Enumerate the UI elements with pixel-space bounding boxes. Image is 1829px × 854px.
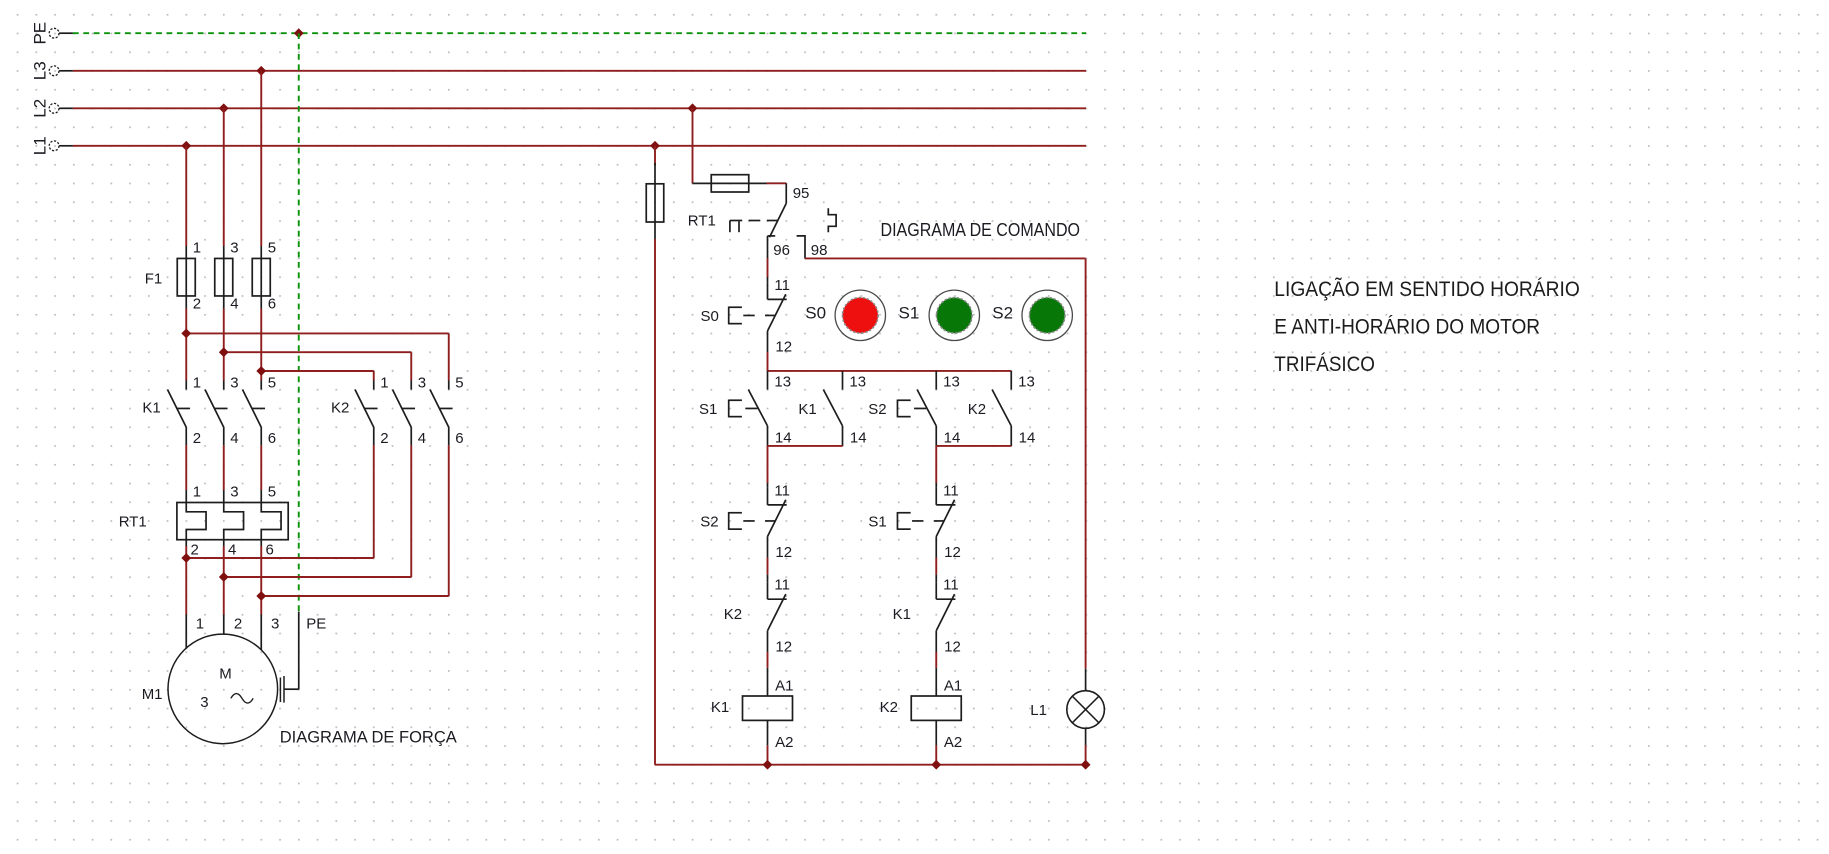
lead K2.A1 [935, 668, 937, 696]
svg-text:3: 3 [230, 483, 238, 500]
svg-text:12: 12 [944, 638, 961, 655]
wire RT1.6 to motor W [260, 546, 262, 615]
wire fuse1 to K1.1 [185, 309, 187, 381]
stub L1 [59, 145, 73, 147]
lead K1.A2 [767, 720, 769, 745]
wire fuse2 to K1.3 [223, 309, 225, 381]
stub L3 [59, 70, 73, 72]
svg-text:12: 12 [775, 339, 792, 356]
junction L1/control rail [650, 141, 660, 151]
svg-text:6: 6 [455, 430, 463, 447]
wire PE vertical [298, 33, 300, 611]
wire crossover L1 to K2.5 [186, 332, 449, 334]
svg-text:6: 6 [265, 542, 273, 559]
svg-text:95: 95 [793, 185, 810, 202]
NO contact S1 13-14 [767, 371, 769, 390]
NC contact K1 11-12 [935, 582, 937, 599]
svg-text:L1: L1 [1030, 702, 1047, 719]
svg-text:3: 3 [200, 694, 208, 711]
svg-text:6: 6 [268, 430, 276, 447]
junction crossover 1 [181, 329, 191, 339]
lead S2.11 [767, 483, 769, 488]
svg-text:TRIFÁSICO: TRIFÁSICO [1274, 353, 1375, 376]
svg-text:96: 96 [773, 242, 790, 259]
wire drop K2.1 [373, 371, 375, 381]
wire RT1.2 lead [185, 540, 187, 546]
lead K2.A2 [935, 720, 937, 745]
svg-text:1: 1 [193, 239, 201, 256]
junction L1/rail [1081, 760, 1091, 770]
svg-text:S1: S1 [899, 303, 920, 322]
svg-text:12: 12 [944, 544, 961, 561]
wire K2 to bottom rail [935, 745, 937, 764]
svg-text:1: 1 [380, 374, 388, 391]
wire K2 to coil K1 [767, 652, 769, 668]
pushbutton actuator S2 [728, 512, 730, 530]
svg-text:L3: L3 [30, 61, 49, 80]
svg-text:13: 13 [774, 374, 791, 391]
svg-text:A2: A2 [775, 734, 793, 751]
NO contact K1 13-14 [842, 371, 844, 390]
svg-text:K1: K1 [711, 699, 729, 716]
svg-text:1: 1 [193, 374, 201, 391]
svg-text:RT1: RT1 [688, 213, 716, 230]
svg-text:3: 3 [271, 616, 279, 633]
wire drop K2.3 [410, 352, 412, 380]
svg-text:98: 98 [811, 242, 828, 259]
NO contact K2 13-14 [1010, 371, 1012, 390]
lead S1.11 [935, 483, 937, 488]
svg-text:6: 6 [268, 296, 276, 313]
svg-text:M: M [219, 666, 232, 683]
stub PE [59, 32, 73, 34]
lead lamp L1 top [1085, 669, 1087, 691]
wire L1 drop to fuse [185, 146, 187, 246]
svg-text:11: 11 [943, 577, 959, 594]
junction RT1.6 [256, 591, 266, 601]
svg-text:4: 4 [228, 542, 236, 559]
lead K2.11 [767, 575, 769, 583]
rail PE [73, 32, 1086, 34]
wire K1 out [185, 445, 187, 490]
NC contact K2 11-12 [767, 582, 769, 599]
svg-text:3: 3 [230, 374, 238, 391]
wire RT1.2 to motor U [185, 546, 187, 615]
control fuse (vertical) [654, 163, 656, 239]
junction crossover 3 [256, 366, 266, 376]
svg-text:A1: A1 [944, 677, 962, 694]
svg-text:2: 2 [193, 296, 201, 313]
wire K2.6 drop [448, 445, 450, 596]
contactor pole K2.1 [373, 381, 375, 390]
wire bottom control rail [655, 764, 1086, 766]
wire lead RT1 [223, 490, 225, 503]
junction RT1.4 [219, 572, 229, 582]
wire K1 to bottom rail [767, 745, 769, 764]
wire L3 drop to fuse [260, 71, 262, 246]
svg-text:K2: K2 [968, 401, 986, 418]
rail L3 [73, 70, 1086, 72]
wire lead RT1 [185, 490, 187, 503]
svg-text:1: 1 [196, 616, 204, 633]
svg-text:5: 5 [268, 239, 276, 256]
motor frame ground bars [279, 678, 281, 703]
contactor pole K2.3 [410, 381, 412, 390]
NC contact S1 11-12 [935, 488, 937, 505]
svg-text:1: 1 [193, 483, 201, 500]
control fuse F2 (horizontal) [693, 182, 767, 184]
terminal circle PE [49, 28, 59, 38]
wire drop K2.5 [448, 333, 450, 380]
wire PE to motor [298, 612, 300, 690]
rail L1 [73, 145, 1086, 147]
wire K1 to coil K2 [935, 652, 937, 668]
svg-text:13: 13 [849, 374, 866, 391]
NO contact S2 13-14 [935, 371, 937, 390]
svg-text:E ANTI-HORÁRIO DO MOTOR: E ANTI-HORÁRIO DO MOTOR [1274, 315, 1540, 338]
svg-text:K1: K1 [142, 399, 160, 416]
thermal overload relay RT1 box [177, 503, 288, 540]
motor M1 leads [185, 615, 187, 649]
terminal circle L1 [49, 141, 59, 151]
lead K1.A1 [767, 668, 769, 696]
wire S2 to K2 [767, 558, 769, 575]
lead S0.11 [767, 277, 769, 282]
svg-text:S2: S2 [868, 401, 886, 418]
RT1 heater element [186, 503, 206, 540]
svg-text:2: 2 [380, 430, 388, 447]
svg-text:5: 5 [268, 374, 276, 391]
pushbutton actuator S1 [728, 400, 730, 418]
pushbutton actuator S0 [728, 307, 730, 325]
wire K2.2 drop [373, 445, 375, 558]
coil K2 [911, 696, 961, 720]
junction L2/fuse2 [219, 103, 229, 113]
svg-text:K2: K2 [724, 606, 742, 623]
svg-text:11: 11 [774, 577, 790, 594]
svg-text:PE: PE [30, 22, 49, 45]
svg-text:K2: K2 [880, 699, 898, 716]
wire crossover L3 to K2.1 [261, 370, 374, 372]
wire K1 out [223, 445, 225, 490]
pushbutton actuator S1 [896, 512, 898, 530]
svg-text:12: 12 [775, 544, 792, 561]
svg-text:2: 2 [190, 542, 198, 559]
svg-text:PE: PE [306, 616, 326, 633]
contactor pole K1.5 [260, 381, 262, 390]
svg-text:LIGAÇÃO EM SENTIDO HORÁRIO: LIGAÇÃO EM SENTIDO HORÁRIO [1274, 277, 1580, 301]
svg-text:14: 14 [775, 430, 792, 447]
RT1 heater element [261, 503, 281, 540]
svg-text:RT1: RT1 [119, 514, 147, 531]
wire RT1.2 to K2.2 [186, 557, 374, 559]
wire 96 to S0 [767, 258, 769, 277]
svg-text:A1: A1 [775, 677, 793, 694]
svg-text:13: 13 [1018, 374, 1035, 391]
RT1 heater element [224, 503, 244, 540]
wire S2/K2 join [936, 445, 1011, 447]
svg-text:5: 5 [268, 483, 276, 500]
fuse F1 pole 3 [260, 246, 262, 309]
junction L2/control fuse [688, 103, 698, 113]
svg-text:4: 4 [418, 430, 426, 447]
svg-text:2: 2 [193, 430, 201, 447]
wire K2.4 drop [410, 445, 412, 577]
wire contact bus [768, 370, 1012, 372]
svg-text:S1: S1 [868, 513, 886, 530]
lead lamp L1 bottom [1085, 728, 1087, 745]
lead K1.11 [935, 575, 937, 583]
stub L2 [59, 107, 73, 109]
wire fuse3 to K1.5 [260, 309, 262, 381]
pilot light S0 red [835, 290, 885, 340]
wire L2 drop to fuse [692, 108, 694, 183]
svg-text:L1: L1 [30, 136, 49, 155]
wire RT1.6 to K2.6 [261, 595, 449, 597]
svg-text:S2: S2 [992, 303, 1013, 322]
wire to S2 [767, 446, 769, 483]
wire right rail [1085, 258, 1087, 668]
svg-text:12: 12 [775, 638, 792, 655]
NC contact S2 11-12 [767, 488, 769, 505]
junction PE/vertical [294, 28, 304, 38]
svg-text:13: 13 [943, 374, 960, 391]
svg-text:4: 4 [230, 430, 238, 447]
svg-text:DIAGRAMA DE FORÇA: DIAGRAMA DE FORÇA [280, 727, 458, 746]
RT1 contact 95-96-98 [785, 183, 787, 203]
svg-text:14: 14 [850, 430, 867, 447]
wire crossover L2 to K2.3 [224, 351, 412, 353]
svg-text:A2: A2 [944, 734, 962, 751]
contactor pole K2.5 [448, 381, 450, 390]
svg-text:11: 11 [943, 482, 959, 499]
svg-text:K2: K2 [331, 399, 349, 416]
junction K2/rail [931, 760, 941, 770]
svg-text:3: 3 [418, 374, 426, 391]
svg-text:3: 3 [230, 239, 238, 256]
svg-text:4: 4 [230, 296, 238, 313]
wire RT1.4 to motor V [223, 546, 225, 615]
RT1 trip symbol [729, 221, 731, 233]
svg-text:S2: S2 [700, 513, 718, 530]
svg-text:S1: S1 [699, 401, 717, 418]
svg-text:14: 14 [1019, 430, 1036, 447]
wire lead RT1 [260, 490, 262, 503]
pushbutton actuator S2 [896, 400, 898, 418]
junction crossover 2 [219, 347, 229, 357]
contactor pole K1.1 [185, 381, 187, 390]
svg-text:S0: S0 [701, 308, 719, 325]
pilot light S2 green [1022, 290, 1072, 340]
wire L1 to bottom rail [1085, 745, 1087, 764]
junction L3/fuse3 [256, 66, 266, 76]
wire left control rail [654, 239, 656, 765]
coil K1 [743, 696, 793, 720]
junction K1/rail [763, 760, 773, 770]
wire to S1 [935, 446, 937, 483]
svg-text:K1: K1 [798, 401, 816, 418]
junction L1/fuse1 [181, 141, 191, 151]
lamp L1 [1067, 691, 1105, 729]
wire RT1.4 to K2.4 [224, 576, 412, 578]
svg-text:2: 2 [234, 616, 242, 633]
wire 98 to right rail [805, 257, 1086, 259]
wire fuse to RT1.95 [767, 182, 787, 184]
svg-text:K1: K1 [893, 606, 911, 623]
svg-text:F1: F1 [145, 270, 163, 287]
NC contact S0 11-12 [767, 282, 769, 299]
svg-text:L2: L2 [30, 99, 49, 118]
terminal circle L3 [49, 66, 59, 76]
svg-text:DIAGRAMA DE COMANDO: DIAGRAMA DE COMANDO [881, 220, 1081, 240]
svg-text:5: 5 [455, 374, 463, 391]
rail L2 [73, 107, 1086, 109]
wire S0 to bus [767, 352, 769, 371]
wire RT1.4 lead [223, 540, 225, 546]
svg-text:M1: M1 [142, 686, 163, 703]
motor M1 [168, 634, 278, 744]
pilot light S1 green [929, 290, 979, 340]
svg-text:11: 11 [774, 482, 790, 499]
wire S1 to K1 [935, 558, 937, 575]
junction RT1.2 [181, 553, 191, 563]
terminal circle L2 [49, 103, 59, 113]
svg-text:14: 14 [944, 430, 961, 447]
contactor pole K1.3 [223, 381, 225, 390]
wire L2 drop to fuse [223, 108, 225, 246]
svg-text:S0: S0 [805, 303, 826, 322]
wire L1 to control fuse [654, 146, 656, 166]
wire S1/K1 join [768, 445, 843, 447]
svg-text:11: 11 [774, 277, 790, 294]
fuse F1 pole 2 [223, 246, 225, 309]
wire RT1.6 lead [260, 540, 262, 546]
fuse F1 pole 1 [185, 246, 187, 309]
wire K1 out [260, 445, 262, 490]
